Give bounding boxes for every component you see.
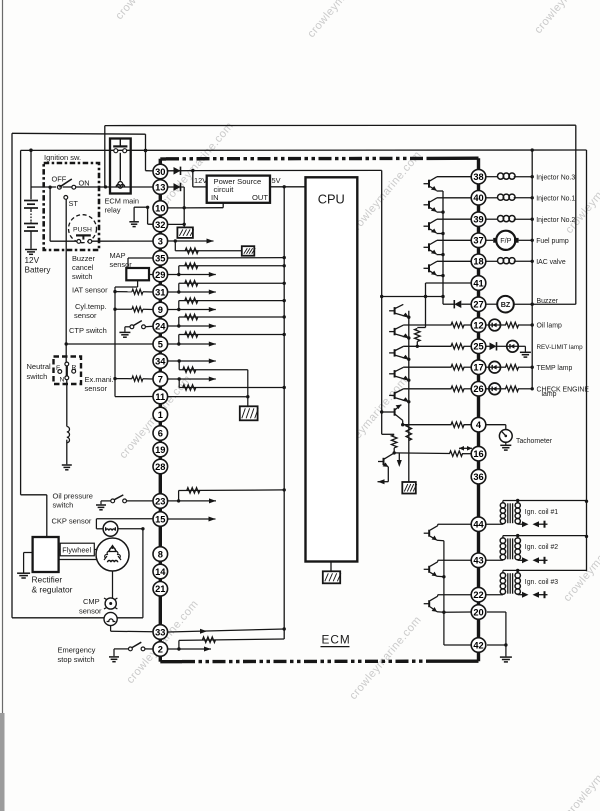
- svg-text:switch: switch: [27, 372, 48, 381]
- svg-text:5V: 5V: [272, 176, 281, 185]
- svg-text:28: 28: [155, 462, 165, 472]
- svg-text:IAC valve: IAC valve: [536, 259, 566, 266]
- svg-text:3: 3: [158, 236, 163, 246]
- svg-text:Buzzer: Buzzer: [537, 298, 559, 305]
- svg-text:lamp: lamp: [542, 391, 557, 398]
- svg-text:ST: ST: [69, 199, 79, 208]
- svg-text:Ign. coil #2: Ign. coil #2: [525, 544, 558, 551]
- svg-text:31: 31: [155, 287, 165, 297]
- svg-text:17: 17: [473, 363, 483, 373]
- svg-text:Buzzer: Buzzer: [72, 254, 96, 263]
- svg-text:15: 15: [155, 514, 165, 524]
- svg-text:33: 33: [155, 627, 165, 637]
- svg-text:Ign. coil #3: Ign. coil #3: [525, 579, 558, 586]
- svg-text:sensor: sensor: [85, 384, 108, 393]
- svg-text:ECM main: ECM main: [105, 197, 140, 206]
- svg-text:35: 35: [155, 253, 165, 263]
- svg-text:Cyl.temp.: Cyl.temp.: [75, 302, 107, 311]
- svg-text:18: 18: [473, 257, 483, 267]
- svg-text:21: 21: [155, 584, 165, 594]
- svg-text:40: 40: [473, 193, 483, 203]
- svg-text:12V: 12V: [194, 176, 207, 185]
- svg-text:44: 44: [473, 520, 484, 530]
- svg-text:F/P: F/P: [500, 236, 511, 245]
- svg-text:6: 6: [158, 428, 163, 438]
- svg-text:34: 34: [155, 356, 166, 366]
- svg-text:12: 12: [473, 320, 483, 330]
- svg-text:12V: 12V: [25, 256, 40, 265]
- svg-text:Tachometer: Tachometer: [516, 438, 553, 445]
- svg-text:Injector No.2: Injector No.2: [536, 217, 575, 224]
- svg-text:PUSH: PUSH: [73, 227, 92, 234]
- svg-text:F: F: [56, 365, 60, 372]
- svg-text:27: 27: [473, 300, 483, 310]
- svg-text:13: 13: [155, 182, 165, 192]
- svg-text:IN: IN: [211, 193, 219, 202]
- svg-text:BZ: BZ: [501, 300, 511, 309]
- svg-text:TEMP lamp: TEMP lamp: [537, 365, 573, 372]
- svg-text:Fuel pump: Fuel pump: [536, 238, 569, 245]
- svg-text:Injector No.1: Injector No.1: [536, 195, 575, 202]
- svg-text:Battery: Battery: [25, 266, 52, 275]
- svg-text:CTP switch: CTP switch: [69, 326, 107, 335]
- svg-text:Neutral: Neutral: [27, 362, 52, 371]
- svg-text:42: 42: [473, 640, 483, 650]
- svg-text:14: 14: [155, 567, 166, 577]
- svg-text:sensor: sensor: [79, 607, 102, 616]
- svg-text:19: 19: [155, 445, 165, 455]
- svg-text:11: 11: [155, 392, 165, 402]
- svg-text:22: 22: [473, 590, 483, 600]
- svg-text:stop switch: stop switch: [58, 655, 95, 664]
- svg-text:39: 39: [473, 215, 483, 225]
- svg-text:38: 38: [473, 172, 483, 182]
- svg-text:CPU: CPU: [318, 192, 345, 207]
- svg-text:sensor: sensor: [110, 260, 133, 269]
- svg-text:23: 23: [155, 496, 165, 506]
- svg-text:Ignition sw.: Ignition sw.: [44, 153, 81, 162]
- svg-text:ECM: ECM: [322, 633, 351, 647]
- svg-text:CMP: CMP: [83, 597, 100, 606]
- svg-text:16: 16: [473, 449, 483, 459]
- svg-text:switch: switch: [72, 272, 93, 281]
- svg-text:Ign. coil #1: Ign. coil #1: [525, 509, 558, 516]
- svg-text:26: 26: [473, 384, 483, 394]
- svg-text:ON: ON: [79, 179, 90, 188]
- svg-text:29: 29: [155, 270, 165, 280]
- svg-text:MAP: MAP: [110, 251, 126, 260]
- svg-text:Emergency: Emergency: [58, 646, 96, 655]
- svg-text:Rectifier: Rectifier: [32, 575, 63, 585]
- svg-text:5: 5: [158, 339, 163, 349]
- svg-text:32: 32: [155, 220, 165, 230]
- svg-text:switch: switch: [53, 501, 74, 510]
- svg-text:20: 20: [473, 607, 483, 617]
- svg-text:30: 30: [155, 167, 165, 177]
- svg-text:43: 43: [473, 556, 483, 566]
- svg-text:N: N: [60, 377, 65, 384]
- svg-text:cancel: cancel: [72, 263, 94, 272]
- svg-text:36: 36: [473, 472, 483, 482]
- svg-text:7: 7: [158, 374, 163, 384]
- svg-text:37: 37: [473, 236, 483, 246]
- svg-text:OUT: OUT: [252, 193, 268, 202]
- svg-text:4: 4: [476, 420, 482, 430]
- svg-text:Flywheel: Flywheel: [62, 546, 91, 555]
- svg-text:25: 25: [473, 342, 483, 352]
- svg-text:CKP sensor: CKP sensor: [52, 517, 92, 526]
- svg-text:Injector No.3: Injector No.3: [536, 174, 575, 181]
- svg-text:OFF: OFF: [52, 175, 67, 184]
- svg-text:Oil lamp: Oil lamp: [537, 323, 562, 330]
- svg-text:Ex.mani.: Ex.mani.: [85, 375, 114, 384]
- svg-text:9: 9: [158, 305, 163, 315]
- svg-text:sensor: sensor: [74, 311, 97, 320]
- svg-text:REV-LIMIT lamp: REV-LIMIT lamp: [537, 344, 584, 351]
- svg-text:R: R: [72, 365, 77, 372]
- svg-text:& regulator: & regulator: [32, 585, 73, 595]
- svg-text:10: 10: [155, 203, 165, 213]
- svg-text:IAT sensor: IAT sensor: [72, 286, 108, 295]
- svg-text:24: 24: [155, 321, 166, 331]
- svg-text:relay: relay: [105, 206, 121, 215]
- svg-text:1: 1: [158, 410, 163, 420]
- svg-text:8: 8: [158, 549, 163, 559]
- svg-text:2: 2: [158, 644, 163, 654]
- svg-text:Oil pressure: Oil pressure: [53, 492, 93, 501]
- svg-text:41: 41: [473, 278, 483, 288]
